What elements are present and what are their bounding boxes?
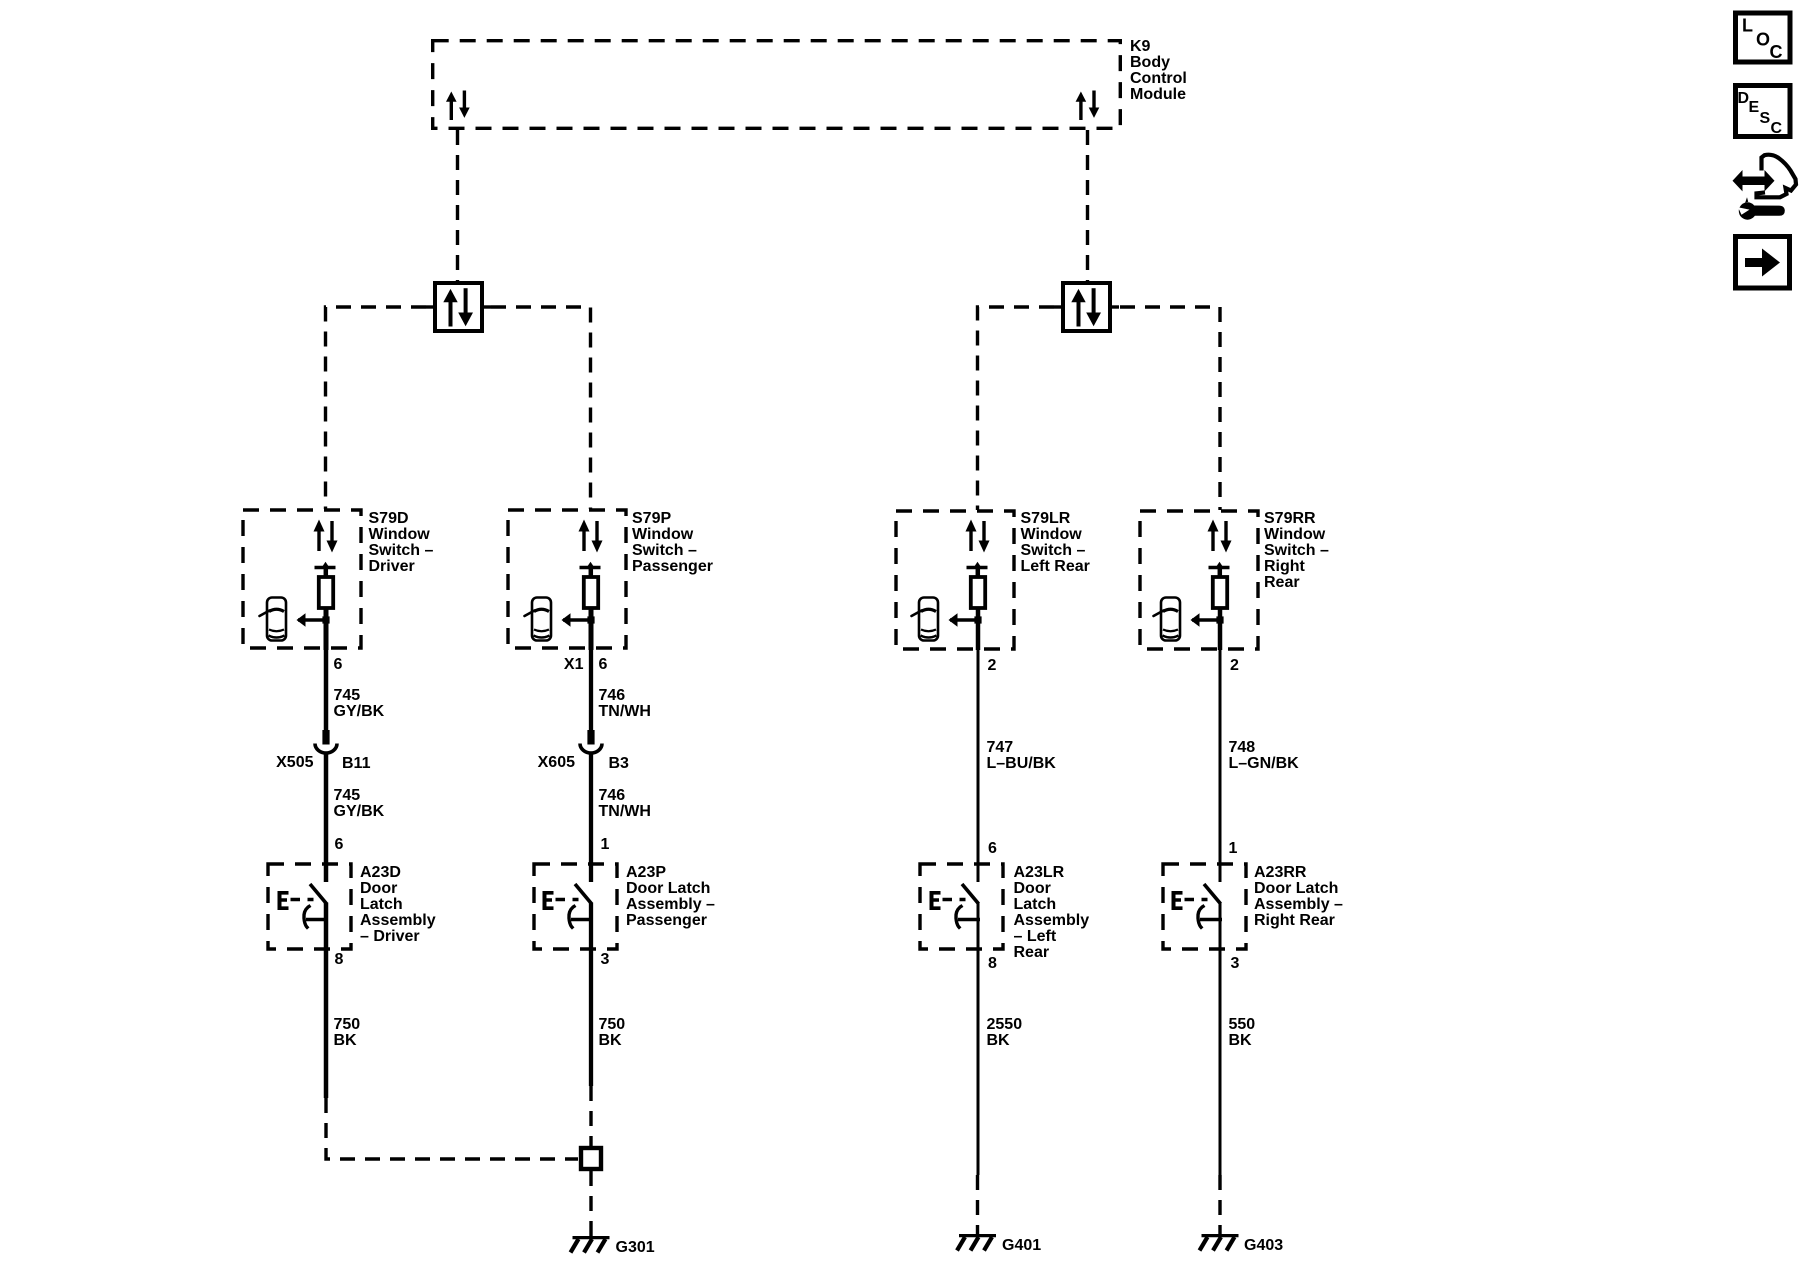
- svg-text:Door Latch: Door Latch: [1254, 880, 1338, 897]
- svg-text:3: 3: [1231, 955, 1240, 972]
- connector X605 B3: [580, 730, 602, 753]
- svg-text:8: 8: [335, 951, 344, 968]
- window switch S79D (dashed box): [243, 510, 361, 648]
- svg-text:A23P: A23P: [626, 864, 666, 881]
- wire 2550 BK: [977, 903, 980, 1176]
- door latch A23RR switch symbol: [1172, 884, 1223, 928]
- svg-text:748: 748: [1229, 739, 1256, 756]
- svg-text:Door: Door: [1014, 880, 1051, 897]
- wire 750 BK (passenger): [589, 903, 593, 1087]
- wire (dashed to splice, driver): [326, 1098, 578, 1159]
- ground G403: [1200, 1236, 1239, 1251]
- svg-text:Window: Window: [1021, 526, 1083, 543]
- svg-text:747: 747: [987, 739, 1014, 756]
- svg-text:O: O: [1756, 30, 1770, 50]
- svg-text:Right Rear: Right Rear: [1254, 912, 1335, 929]
- svg-text:Window: Window: [632, 526, 694, 543]
- wire (dashed rail left box to S79D): [326, 307, 427, 509]
- svg-text:L: L: [1742, 16, 1753, 36]
- wire (dashed to G401): [976, 1175, 979, 1234]
- svg-text:A23RR: A23RR: [1254, 864, 1307, 881]
- svg-text:Driver: Driver: [369, 558, 415, 575]
- window motor symbol box (right): [1054, 283, 1119, 331]
- wire 745 GY/BK upper segment: [324, 650, 329, 730]
- K9 pin symbol (up/down arrows, right): [1076, 91, 1100, 121]
- door latch A23D switch symbol: [278, 884, 329, 928]
- svg-text:Switch –: Switch –: [1264, 542, 1329, 559]
- svg-text:6: 6: [599, 656, 608, 673]
- svg-text:2: 2: [988, 657, 997, 674]
- wire 748 L-GN/BK: [1219, 650, 1222, 882]
- K9 pin symbol (up/down arrows, left): [446, 91, 470, 121]
- svg-text:X1: X1: [564, 656, 584, 673]
- svg-text:G301: G301: [616, 1239, 655, 1256]
- wire (dashed to splice, passenger): [589, 1086, 592, 1146]
- svg-text:Assembly –: Assembly –: [1254, 896, 1343, 913]
- wire (dashed to G403): [1218, 1175, 1221, 1234]
- svg-text:GY/BK: GY/BK: [334, 803, 385, 820]
- svg-text:Switch –: Switch –: [632, 542, 697, 559]
- svg-text:TN/WH: TN/WH: [599, 703, 651, 720]
- svg-text:S79RR: S79RR: [1264, 510, 1316, 527]
- svg-text:L–GN/BK: L–GN/BK: [1229, 755, 1300, 772]
- svg-text:Passenger: Passenger: [626, 912, 707, 929]
- ground G401: [957, 1236, 996, 1251]
- svg-text:C: C: [1770, 42, 1783, 62]
- wire 746 TN/WH upper segment: [589, 650, 593, 730]
- door latch assembly A23D (dashed box): [268, 864, 351, 949]
- svg-text:D: D: [1738, 90, 1750, 107]
- svg-text:Module: Module: [1130, 86, 1186, 103]
- svg-text:Rear: Rear: [1014, 944, 1050, 961]
- svg-text:Window: Window: [369, 526, 431, 543]
- svg-text:C: C: [1771, 120, 1783, 137]
- wire (dashed rail left box to S79P): [491, 307, 591, 509]
- door latch assembly A23LR (dashed box): [920, 864, 1003, 949]
- svg-text:Passenger: Passenger: [632, 558, 713, 575]
- window switch S79RR (dashed box): [1140, 511, 1258, 649]
- svg-text:– Left: – Left: [1014, 928, 1057, 945]
- svg-text:6: 6: [335, 836, 344, 853]
- svg-text:G401: G401: [1002, 1237, 1041, 1254]
- window motor symbol box (left): [426, 283, 491, 331]
- svg-text:TN/WH: TN/WH: [599, 803, 651, 820]
- svg-text:Switch –: Switch –: [369, 542, 434, 559]
- window switch S79LR (dashed box): [896, 511, 1014, 649]
- window switch S79D symbol: [260, 520, 338, 651]
- wire (dashed drop from K9 left): [456, 130, 459, 281]
- svg-text:8: 8: [988, 955, 997, 972]
- svg-text:Rear: Rear: [1264, 574, 1300, 591]
- svg-text:BK: BK: [987, 1032, 1011, 1049]
- svg-text:Switch –: Switch –: [1021, 542, 1086, 559]
- svg-text:Assembly –: Assembly –: [626, 896, 715, 913]
- svg-text:G403: G403: [1244, 1237, 1283, 1254]
- wire 750 BK (driver): [324, 903, 329, 1099]
- svg-text:S79D: S79D: [369, 510, 409, 527]
- svg-text:746: 746: [599, 687, 626, 704]
- door latch assembly A23RR (dashed box): [1163, 864, 1246, 949]
- svg-text:Latch: Latch: [360, 896, 403, 913]
- svg-text:1: 1: [1229, 840, 1238, 857]
- svg-text:Right: Right: [1264, 558, 1306, 575]
- svg-text:Latch: Latch: [1014, 896, 1057, 913]
- window switch S79P (dashed box): [508, 510, 626, 648]
- wire 747 L-BU/BK: [977, 650, 980, 882]
- svg-text:E: E: [1749, 99, 1760, 116]
- svg-text:S79P: S79P: [632, 510, 671, 527]
- svg-text:GY/BK: GY/BK: [334, 703, 385, 720]
- svg-text:6: 6: [334, 656, 343, 673]
- window switch S79LR symbol: [912, 520, 990, 651]
- svg-text:745: 745: [334, 687, 361, 704]
- svg-text:S: S: [1760, 110, 1771, 127]
- svg-text:X605: X605: [538, 754, 575, 771]
- svg-text:1: 1: [601, 836, 610, 853]
- svg-text:B11: B11: [342, 755, 371, 772]
- svg-text:Control: Control: [1130, 70, 1187, 87]
- svg-text:750: 750: [334, 1016, 361, 1033]
- svg-text:BK: BK: [599, 1032, 623, 1049]
- splice node: [581, 1148, 601, 1169]
- svg-text:K9: K9: [1130, 38, 1151, 55]
- svg-text:BK: BK: [334, 1032, 358, 1049]
- svg-text:BK: BK: [1229, 1032, 1253, 1049]
- svg-text:750: 750: [599, 1016, 626, 1033]
- svg-text:X505: X505: [276, 754, 313, 771]
- svg-text:S79LR: S79LR: [1021, 510, 1071, 527]
- wire 550 BK: [1219, 903, 1222, 1176]
- icon directional arrows / repair: [1733, 155, 1797, 220]
- svg-text:3: 3: [601, 951, 610, 968]
- svg-text:Assembly: Assembly: [1014, 912, 1090, 929]
- svg-text:6: 6: [988, 840, 997, 857]
- door latch A23P switch symbol: [543, 884, 594, 928]
- door latch A23LR switch symbol: [930, 884, 981, 928]
- svg-text:B3: B3: [609, 755, 630, 772]
- icon forward arrow box: [1736, 237, 1790, 289]
- svg-text:L–BU/BK: L–BU/BK: [987, 755, 1057, 772]
- svg-text:Assembly: Assembly: [360, 912, 436, 929]
- wire (dashed rail right box to S79RR): [1120, 307, 1220, 510]
- svg-text:Body: Body: [1130, 54, 1170, 71]
- door latch assembly A23P (dashed box): [534, 864, 617, 949]
- icon LOC box: [1736, 13, 1791, 62]
- svg-text:2: 2: [1230, 657, 1239, 674]
- svg-text:2550: 2550: [987, 1016, 1023, 1033]
- svg-text:550: 550: [1229, 1016, 1256, 1033]
- svg-text:– Driver: – Driver: [360, 928, 420, 945]
- svg-text:A23LR: A23LR: [1014, 864, 1065, 881]
- icon DESC box: [1736, 86, 1791, 137]
- module K9 Body Control Module (dashed box): [433, 41, 1121, 129]
- window switch S79P symbol: [525, 520, 603, 651]
- svg-text:Window: Window: [1264, 526, 1326, 543]
- ground G301: [571, 1238, 610, 1253]
- window switch S79RR symbol: [1154, 520, 1232, 651]
- svg-text:A23D: A23D: [360, 864, 401, 881]
- wire 745 GY/BK lower segment: [324, 752, 329, 882]
- connector X505 B11: [315, 730, 337, 753]
- svg-text:746: 746: [599, 787, 626, 804]
- svg-text:Door: Door: [360, 880, 397, 897]
- wire (dashed drop from K9 right): [1086, 130, 1089, 281]
- svg-text:745: 745: [334, 787, 361, 804]
- wire (dashed splice to G301): [589, 1171, 592, 1236]
- wire 746 TN/WH lower segment: [589, 752, 593, 882]
- svg-text:Left Rear: Left Rear: [1021, 558, 1090, 575]
- svg-text:Door Latch: Door Latch: [626, 880, 710, 897]
- wire (dashed rail right box to S79LR): [978, 307, 1055, 510]
